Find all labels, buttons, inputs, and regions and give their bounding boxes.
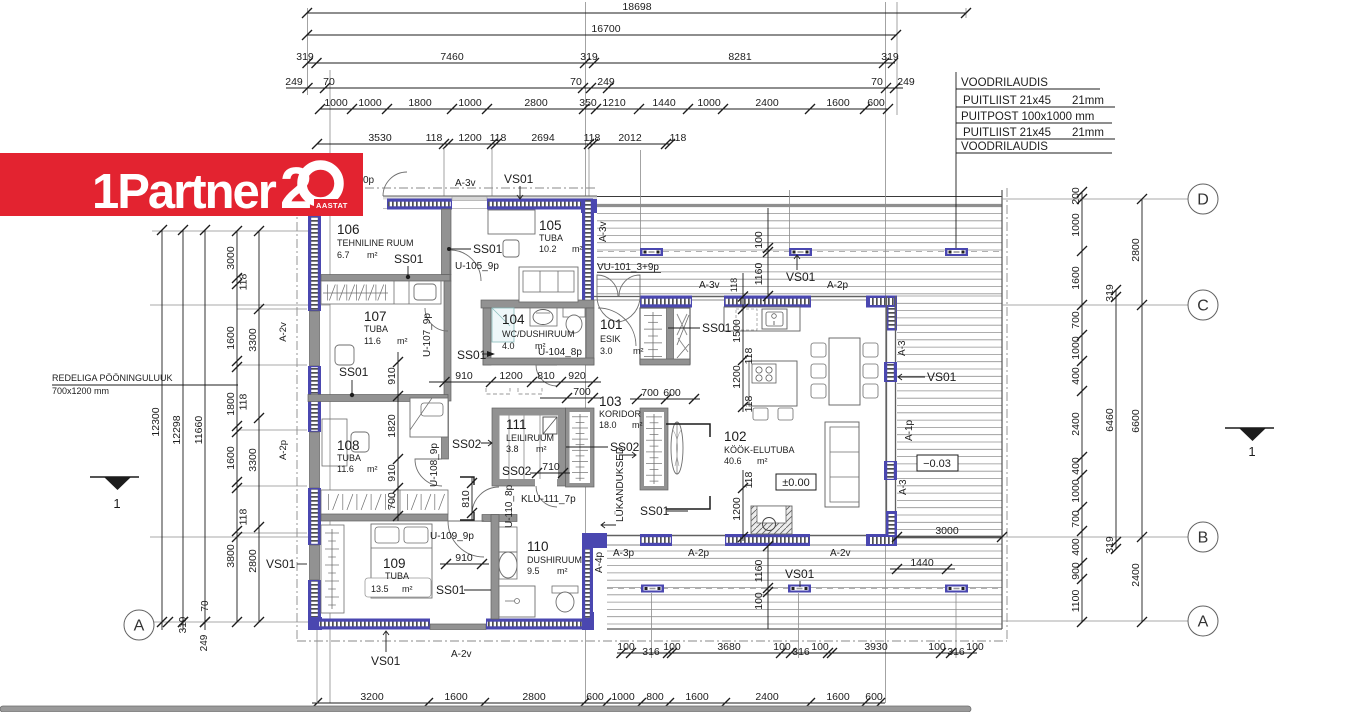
grid bubble B <box>1188 522 1218 552</box>
svg-text:1600: 1600 <box>826 691 850 703</box>
wall segment 482-517 above 110 <box>482 515 517 522</box>
svg-text:1: 1 <box>113 496 120 511</box>
dim chain 910-1200-810-920 <box>429 381 601 383</box>
left wall window lower <box>308 488 321 545</box>
svg-text:118: 118 <box>729 278 739 292</box>
svg-text:700: 700 <box>641 387 659 399</box>
left exterior wall window upper <box>308 216 321 311</box>
svg-text:3200: 3200 <box>360 691 384 703</box>
svg-text:600: 600 <box>586 691 604 703</box>
svg-text:100: 100 <box>811 641 829 653</box>
room 110 deck corner post <box>582 533 607 548</box>
svg-text:±0.00: ±0.00 <box>782 477 809 489</box>
svg-text:C: C <box>1197 298 1209 315</box>
left dimension chain 3300-3300-2800 <box>258 231 260 622</box>
level mark +-0.00 <box>776 474 816 490</box>
wall between 106 and 107 <box>321 275 451 282</box>
svg-text:A-3v: A-3v <box>699 280 720 291</box>
svg-text:100: 100 <box>663 641 681 653</box>
svg-text:A: A <box>1198 614 1209 631</box>
table leader vertical x=956 <box>955 72 957 252</box>
svg-text:12300: 12300 <box>150 407 162 436</box>
door arc room 110 <box>472 487 499 514</box>
svg-text:9.5: 9.5 <box>527 566 540 576</box>
svg-text:m²: m² <box>367 464 378 474</box>
room 109 area box 13.5 <box>365 578 431 597</box>
left wall window bottom <box>308 580 321 619</box>
svg-text:1200: 1200 <box>499 370 523 382</box>
svg-text:910: 910 <box>386 464 398 482</box>
east wall window small 2 <box>884 461 897 480</box>
svg-text:7460: 7460 <box>440 51 464 63</box>
svg-text:m²: m² <box>757 456 768 466</box>
cooktop <box>752 364 776 383</box>
svg-text:m²: m² <box>402 584 413 594</box>
room 104 east wall <box>586 308 594 365</box>
svg-text:TUBA: TUBA <box>539 233 563 243</box>
svg-text:100: 100 <box>928 641 946 653</box>
deck top edge beam <box>597 196 1002 198</box>
svg-text:SS01: SS01 <box>473 242 503 256</box>
room 110 east wall blue <box>582 548 593 619</box>
deck post dashed line bottom <box>607 588 1002 590</box>
svg-text:A-1p: A-1p <box>904 419 915 441</box>
wardrobe 2 walls (corridor 103) <box>640 408 668 490</box>
svg-text:10.2: 10.2 <box>539 244 557 254</box>
svg-text:1800: 1800 <box>225 392 237 416</box>
SW corner block <box>308 617 322 630</box>
svg-text:600: 600 <box>865 691 883 703</box>
grid bubble A <box>124 610 154 640</box>
bottom exterior wall window right (room 110) <box>486 619 593 630</box>
top exterior wall base <box>383 196 597 209</box>
svg-text:2694: 2694 <box>531 132 555 144</box>
room 105 bed <box>488 210 535 234</box>
left wall pier 3 <box>310 545 320 580</box>
room 111 walls <box>492 408 566 486</box>
door arc top left behind logo <box>383 172 407 196</box>
svg-text:109: 109 <box>383 556 406 571</box>
vertical extension line x=966 <box>965 8 967 18</box>
deck post VS01 <box>788 585 811 593</box>
dimension chain 319-7460-319-8281-319 <box>307 62 895 64</box>
svg-text:810: 810 <box>460 490 472 508</box>
room 111 stove <box>543 417 557 434</box>
kitchen fridge dashed <box>736 309 757 330</box>
closet divider entry <box>677 315 689 358</box>
bottom scrollbar <box>0 706 971 712</box>
vertical extension line x=307.5 <box>307 8 309 95</box>
svg-text:VS01: VS01 <box>785 567 815 581</box>
svg-text:249: 249 <box>285 76 303 88</box>
svg-text:1200: 1200 <box>731 497 743 521</box>
svg-text:200: 200 <box>1070 187 1082 205</box>
svg-text:1000: 1000 <box>1070 213 1082 237</box>
grid bubble C <box>1188 290 1218 320</box>
vertical extension line x=330 <box>329 70 331 703</box>
svg-text:13.5: 13.5 <box>371 584 389 594</box>
material table <box>956 89 1115 153</box>
deck post dashed line top <box>597 251 1002 253</box>
svg-text:11.6: 11.6 <box>337 464 354 474</box>
door arc room 111 <box>536 486 557 507</box>
svg-text:316: 316 <box>642 646 660 658</box>
big room north window 1 <box>640 296 692 308</box>
svg-text:319: 319 <box>296 51 314 63</box>
svg-text:118: 118 <box>670 132 687 144</box>
left wall window mid <box>308 366 321 432</box>
window top wall left VS01 <box>387 199 452 210</box>
svg-text:1Partner: 1Partner <box>92 165 277 219</box>
svg-text:1820: 1820 <box>386 414 398 438</box>
svg-text:A-2v: A-2v <box>278 322 289 342</box>
grid line C left <box>150 304 330 306</box>
svg-text:1200: 1200 <box>731 365 743 389</box>
kitchen counter <box>724 307 800 331</box>
svg-text:KÖÖK-ELUTUBA: KÖÖK-ELUTUBA <box>724 445 795 455</box>
svg-text:4.0: 4.0 <box>502 341 515 351</box>
svg-text:21mm: 21mm <box>1072 127 1104 139</box>
svg-text:118: 118 <box>490 132 507 144</box>
svg-text:1600: 1600 <box>685 691 709 703</box>
svg-text:TUBA: TUBA <box>364 324 388 334</box>
svg-text:800: 800 <box>646 691 664 703</box>
svg-text:700: 700 <box>573 386 591 398</box>
svg-text:1440: 1440 <box>652 97 676 109</box>
svg-text:3.8: 3.8 <box>506 444 519 454</box>
room 107 south wall <box>308 395 448 402</box>
room 109 bed <box>371 524 432 598</box>
svg-text:U-109_9p: U-109_9p <box>430 531 474 542</box>
svg-text:VOODRILAUDIS: VOODRILAUDIS <box>961 77 1048 89</box>
svg-text:U-110_8p: U-110_8p <box>504 484 515 528</box>
svg-text:WC/DUSHIRUUM: WC/DUSHIRUUM <box>502 329 575 339</box>
extension lines from top chain to walls <box>444 148 589 196</box>
bottom left vertical ext line <box>316 630 318 703</box>
door arc room 104 <box>536 365 557 386</box>
grid line C right <box>1002 304 1188 306</box>
svg-text:18698: 18698 <box>622 1 651 13</box>
svg-text:A-3: A-3 <box>897 340 908 356</box>
svg-text:2012: 2012 <box>618 132 642 144</box>
svg-text:VOODRILAUDIS: VOODRILAUDIS <box>961 141 1048 153</box>
svg-text:1600: 1600 <box>1070 266 1082 290</box>
svg-text:SS01: SS01 <box>339 365 369 379</box>
svg-text:1160: 1160 <box>753 263 765 286</box>
vertical extension line x=897 <box>896 2 898 115</box>
svg-text:1600: 1600 <box>444 691 468 703</box>
big room south wall thin lines <box>594 535 866 537</box>
svg-text:TUBA: TUBA <box>385 571 409 581</box>
room 105 chair <box>503 240 519 257</box>
vertical dim 810 niche <box>471 477 473 520</box>
svg-text:SS01: SS01 <box>640 504 670 518</box>
SE corner block big room <box>866 534 897 546</box>
level mark -0.03 <box>917 455 958 471</box>
svg-text:2400: 2400 <box>755 97 779 109</box>
svg-text:900: 900 <box>1070 562 1082 580</box>
svg-text:118: 118 <box>743 395 755 412</box>
svg-text:KLU-111_7p: KLU-111_7p <box>521 494 576 505</box>
grid line B left <box>150 536 310 538</box>
wall right of 107 vertical <box>444 281 451 401</box>
deck boards east side <box>897 296 1002 544</box>
door arc room 109 <box>448 521 484 557</box>
svg-text:810: 810 <box>537 370 555 382</box>
svg-text:U-104_8p: U-104_8p <box>538 347 582 358</box>
svg-text:A-3p: A-3p <box>613 548 635 559</box>
vertical extension line x=885.5 <box>885 2 887 703</box>
dimension chain 3530-118-1200-... <box>317 143 670 145</box>
svg-text:118: 118 <box>584 132 601 144</box>
svg-text:1210: 1210 <box>602 97 626 109</box>
Partner logo red band <box>0 153 363 216</box>
svg-text:3300: 3300 <box>247 448 259 472</box>
bottom deck dim row <box>617 652 977 654</box>
deck post VS01 <box>789 248 812 256</box>
svg-text:3000: 3000 <box>225 246 237 270</box>
deck post VS01 <box>945 248 968 256</box>
dimension chain 12300 <box>161 230 163 630</box>
bottom wall gray gap <box>430 624 486 630</box>
svg-text:SS01: SS01 <box>436 583 466 597</box>
left room dimension chain 3000-1600-1800-1600-3800 <box>236 231 238 622</box>
big room north wall base line <box>640 296 897 298</box>
svg-text:2400: 2400 <box>1130 563 1142 587</box>
svg-text:B: B <box>1198 530 1209 547</box>
svg-text:106: 106 <box>337 222 360 237</box>
room 104 shower <box>492 308 514 342</box>
deck right edge <box>1001 190 1003 629</box>
svg-text:D: D <box>1197 192 1209 209</box>
dining table <box>829 338 860 405</box>
bottom exterior wall window left (room 109) <box>318 619 430 630</box>
svg-text:70: 70 <box>570 76 582 88</box>
svg-text:1100: 1100 <box>1070 590 1082 613</box>
room 108 closet band <box>321 490 448 514</box>
svg-text:1000: 1000 <box>697 97 721 109</box>
svg-text:12298: 12298 <box>171 415 183 444</box>
dashed niche marks <box>486 388 510 394</box>
svg-text:2800: 2800 <box>522 691 546 703</box>
svg-text:104: 104 <box>502 312 525 327</box>
svg-text:319: 319 <box>1104 536 1116 554</box>
deck boards bottom strip <box>607 551 1002 624</box>
dim 3000 deck B line <box>897 536 1002 538</box>
svg-text:3930: 3930 <box>864 641 888 653</box>
svg-text:700: 700 <box>1070 510 1082 528</box>
bracket marks SS01 big room <box>666 424 710 509</box>
kitchen island <box>749 361 797 406</box>
NW corner of room 105 wall step <box>581 199 597 213</box>
svg-text:3530: 3530 <box>368 132 392 144</box>
svg-text:3.0: 3.0 <box>600 346 613 356</box>
svg-text:70: 70 <box>323 76 335 88</box>
south wall window 2 <box>725 534 810 546</box>
electric panel entry <box>677 314 688 352</box>
room 104 sink <box>530 308 557 326</box>
svg-text:m²: m² <box>397 336 408 346</box>
svg-text:910: 910 <box>386 367 398 385</box>
svg-text:103: 103 <box>599 394 622 409</box>
south wall window 1 <box>640 534 672 546</box>
svg-text:319: 319 <box>1104 284 1116 302</box>
room 110 toilet <box>552 586 578 593</box>
room 105 south wall <box>481 300 594 308</box>
svg-text:100: 100 <box>753 231 765 249</box>
svg-text:319: 319 <box>580 51 598 63</box>
room 107 closet band <box>321 281 441 304</box>
door arc room 107 <box>425 308 448 331</box>
svg-text:A-2p: A-2p <box>688 548 710 559</box>
svg-text:118: 118 <box>743 471 755 488</box>
big room east wall thin <box>886 296 888 546</box>
svg-text:VS01: VS01 <box>371 654 401 668</box>
svg-text:101: 101 <box>600 317 623 332</box>
svg-text:m²: m² <box>632 420 643 430</box>
svg-text:3800: 3800 <box>225 544 237 568</box>
svg-text:2400: 2400 <box>755 691 779 703</box>
svg-text:70: 70 <box>871 76 883 88</box>
svg-text:1200: 1200 <box>458 132 482 144</box>
right room dimension chain <box>1081 192 1083 622</box>
bottom main dim chain <box>312 702 885 704</box>
svg-text:107: 107 <box>364 309 387 324</box>
dim 910 room 109 <box>440 563 489 565</box>
room 110 shower tray <box>499 586 535 617</box>
left wall pier 1 <box>310 311 320 366</box>
kitchen sink <box>762 309 787 329</box>
wardrobe 1 clothes hatch <box>579 414 581 481</box>
svg-text:VS01: VS01 <box>266 557 296 571</box>
svg-text:6460: 6460 <box>1104 408 1116 432</box>
svg-text:A-3v: A-3v <box>455 178 476 189</box>
svg-text:920: 920 <box>568 370 586 382</box>
dim 1440 deck <box>890 568 955 570</box>
svg-text:100: 100 <box>966 641 984 653</box>
deck post extension line to post 2 <box>789 190 791 250</box>
svg-text:249: 249 <box>199 634 210 651</box>
dim 700-600 corridor <box>630 398 700 400</box>
svg-text:910: 910 <box>455 370 473 382</box>
section marker 1 left <box>90 476 139 478</box>
extension lines bottom deck posts <box>652 593 957 658</box>
svg-text:70: 70 <box>200 600 211 612</box>
room 111 door opening white gap <box>535 478 557 487</box>
svg-text:VS01: VS01 <box>504 172 534 186</box>
svg-text:700: 700 <box>386 492 398 510</box>
svg-text:6600: 6600 <box>1130 409 1142 433</box>
svg-text:1800: 1800 <box>408 97 432 109</box>
svg-text:U-108_9p: U-108_9p <box>429 443 440 487</box>
roof overhang dashed outline <box>297 188 1007 641</box>
room 108 desk and chair <box>322 419 347 466</box>
section marker 1 right <box>1225 427 1274 429</box>
south wall left corner block <box>582 534 607 546</box>
east wall window small 1 <box>884 362 897 382</box>
dimension chain 18698 <box>307 12 966 14</box>
svg-text:110: 110 <box>527 539 549 554</box>
grid bubble D <box>1188 184 1218 214</box>
svg-text:1500: 1500 <box>731 319 743 343</box>
svg-text:1000: 1000 <box>458 97 482 109</box>
SE corner of room 110 <box>582 612 594 630</box>
svg-text:3000: 3000 <box>935 525 959 537</box>
svg-text:−0.03: −0.03 <box>923 458 951 470</box>
svg-text:SS01: SS01 <box>702 321 732 335</box>
grid line B right <box>897 536 1188 538</box>
room 107 cabinet right <box>414 284 436 300</box>
svg-text:2800: 2800 <box>1130 238 1142 262</box>
svg-text:400: 400 <box>1070 457 1082 475</box>
svg-text:118: 118 <box>238 508 250 525</box>
svg-text:18.0: 18.0 <box>599 420 617 430</box>
svg-text:3300: 3300 <box>247 328 259 352</box>
svg-text:1000: 1000 <box>1070 336 1082 360</box>
svg-text:A-2p: A-2p <box>278 440 289 460</box>
svg-text:PUITPOST 100x1000 mm: PUITPOST 100x1000 mm <box>961 111 1094 123</box>
svg-text:350: 350 <box>579 97 597 109</box>
grid line A left <box>154 621 310 623</box>
svg-text:A-4p: A-4p <box>594 551 605 573</box>
entry threshold lines <box>594 296 640 298</box>
svg-text:1000: 1000 <box>611 691 635 703</box>
svg-text:1000: 1000 <box>358 97 382 109</box>
svg-text:700: 700 <box>1070 311 1082 329</box>
room 111 benches <box>509 416 540 480</box>
svg-text:316: 316 <box>947 646 965 658</box>
deck post VS01 <box>640 248 663 256</box>
svg-text:100: 100 <box>617 641 635 653</box>
room 104 west wall <box>483 308 491 365</box>
svg-text:100: 100 <box>753 592 765 610</box>
deck dim chain bottom x=768 <box>767 546 769 629</box>
dimension chain 249-70 row <box>286 87 903 89</box>
svg-text:1: 1 <box>1248 444 1255 459</box>
svg-text:DUSHIRUUM: DUSHIRUUM <box>527 555 582 565</box>
svg-text:102: 102 <box>724 429 747 444</box>
svg-text:118: 118 <box>238 273 250 290</box>
svg-text:SS02: SS02 <box>452 437 482 451</box>
svg-text:105: 105 <box>539 218 562 233</box>
entry closet hatch <box>652 312 654 360</box>
deck post extension line to post 1 <box>640 150 642 250</box>
Partner logo AASTAT <box>314 199 363 210</box>
svg-text:PUITLIIST 21x45: PUITLIIST 21x45 <box>963 127 1051 139</box>
room 108 east wall <box>442 401 449 459</box>
grid line D <box>1002 198 1188 200</box>
deck post VS01 <box>641 585 664 593</box>
dining chairs <box>811 343 826 357</box>
right dimension chain 2800-6600-2400 <box>1141 199 1143 622</box>
door arc room 105 <box>450 250 481 281</box>
dimension chain 16700 <box>307 34 896 36</box>
top wall gray gap <box>452 197 487 201</box>
svg-text:249: 249 <box>597 76 615 88</box>
svg-text:A-2v: A-2v <box>830 548 851 559</box>
svg-text:m²: m² <box>633 346 644 356</box>
svg-text:3680: 3680 <box>717 641 741 653</box>
svg-text:108: 108 <box>337 438 360 453</box>
svg-text:TEHNILINE RUUM: TEHNILINE RUUM <box>337 238 414 248</box>
entry closet room 101 <box>640 308 690 365</box>
svg-text:1600: 1600 <box>826 97 850 109</box>
svg-text:LÜKANDUKSED: LÜKANDUKSED <box>614 447 626 522</box>
room 108 bed <box>410 398 448 437</box>
room 105 east wall window <box>582 199 594 306</box>
room 107 armchair <box>335 345 354 365</box>
svg-text:SS01: SS01 <box>457 348 487 362</box>
